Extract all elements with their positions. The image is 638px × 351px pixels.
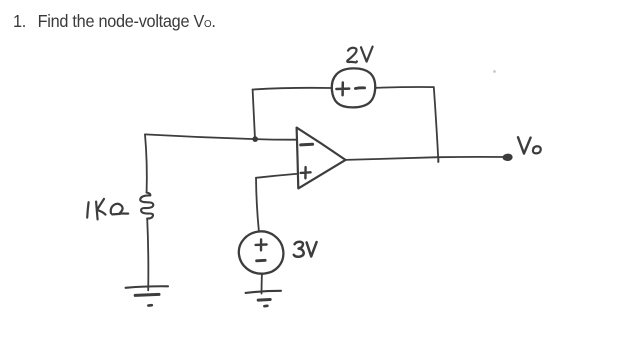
ground left [126, 286, 168, 288]
wire: left vertical from corner down to resistor [145, 134, 147, 192]
wire: resistor to left ground [147, 219, 148, 291]
faint scan dot [493, 70, 496, 73]
label 2V (handwritten) [347, 48, 357, 63]
plus symbol inside 2V [336, 83, 349, 96]
node junction at inverting input (dot) [252, 136, 258, 142]
resistor R1 (scribbled coil) [140, 193, 153, 219]
wire: junction to inverting input [255, 138, 296, 141]
wire: feedback left vertical (junction up to top wire) [253, 90, 255, 139]
label 1KΩ (handwritten) [87, 202, 88, 217]
wire: top horizontal from corner to 2V source [253, 88, 332, 90]
label Vo (handwritten) [518, 137, 531, 153]
source U2 2V (circle blob) [332, 68, 375, 107]
node: output junction tick [437, 157, 439, 162]
wire: right vertical down to output node [434, 87, 439, 162]
ground bottom [246, 291, 281, 293]
wire: vertical down to 3V source [256, 178, 259, 232]
wire: 3V source to bottom ground [261, 274, 263, 294]
wire: 2V source to right corner [376, 86, 434, 89]
minus symbol inside 3V [257, 259, 266, 262]
wire: op-amp output to Vo [346, 157, 506, 160]
wire: noninverting input horizontal [256, 174, 296, 178]
op-amp minus input marker [301, 143, 313, 147]
minus symbol inside 2V [355, 86, 364, 89]
op-amp plus input marker [301, 167, 311, 178]
plus symbol inside 3V [256, 240, 267, 251]
op-amp U1 triangle [297, 128, 346, 189]
node Vo (arrow dot) [503, 154, 512, 160]
wire: left horizontal from corner to junction [145, 134, 255, 139]
source U3 3V (circle) [239, 231, 284, 273]
label 3V (handwritten) [294, 242, 304, 257]
